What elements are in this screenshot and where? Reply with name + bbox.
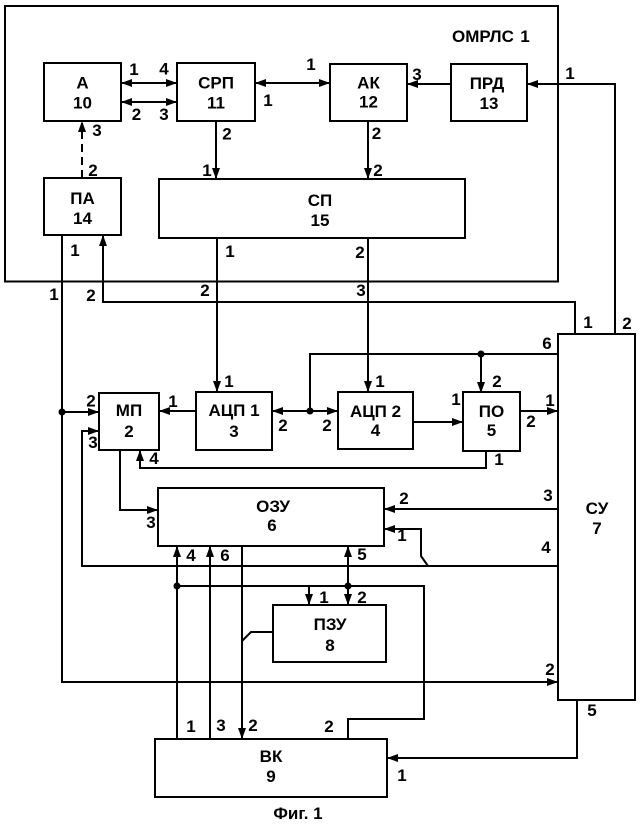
svg-text:МП: МП (116, 401, 142, 420)
svg-text:2: 2 (200, 281, 209, 300)
svg-text:2: 2 (132, 105, 141, 124)
svg-text:6: 6 (220, 546, 229, 565)
svg-text:2: 2 (545, 660, 554, 679)
svg-text:1: 1 (49, 285, 58, 304)
svg-text:1: 1 (583, 313, 592, 332)
svg-text:2: 2 (492, 372, 501, 391)
svg-text:1: 1 (375, 372, 384, 391)
svg-text:1: 1 (494, 450, 503, 469)
svg-text:АК: АК (357, 74, 380, 93)
svg-text:2: 2 (324, 717, 333, 736)
svg-text:ПЗУ: ПЗУ (314, 615, 347, 634)
svg-text:ОЗУ: ОЗУ (256, 497, 290, 516)
svg-text:4: 4 (371, 421, 381, 440)
svg-text:4: 4 (149, 449, 159, 468)
svg-text:2: 2 (526, 412, 535, 431)
svg-text:1: 1 (306, 55, 315, 74)
svg-text:3: 3 (146, 513, 155, 532)
svg-text:1: 1 (565, 64, 574, 83)
svg-text:АЦП 1: АЦП 1 (208, 401, 259, 420)
svg-text:3: 3 (88, 433, 97, 452)
svg-text:12: 12 (359, 93, 378, 112)
svg-text:1: 1 (545, 391, 554, 410)
svg-text:1: 1 (168, 392, 177, 411)
svg-text:2: 2 (373, 161, 382, 180)
svg-text:5: 5 (487, 421, 496, 440)
svg-text:4: 4 (159, 60, 169, 79)
svg-text:2: 2 (622, 314, 631, 333)
svg-text:5: 5 (357, 545, 366, 564)
svg-text:1: 1 (129, 60, 138, 79)
svg-text:3: 3 (92, 121, 101, 140)
svg-text:2: 2 (355, 243, 364, 262)
svg-text:1: 1 (397, 766, 406, 785)
svg-text:2: 2 (222, 125, 231, 144)
svg-text:1: 1 (224, 372, 233, 391)
svg-text:7: 7 (592, 519, 601, 538)
svg-text:13: 13 (480, 94, 499, 113)
svg-text:9: 9 (266, 767, 275, 786)
svg-text:1: 1 (397, 526, 406, 545)
svg-text:СП: СП (308, 191, 333, 210)
svg-text:3: 3 (159, 105, 168, 124)
svg-text:2: 2 (399, 489, 408, 508)
svg-text:1: 1 (520, 27, 529, 46)
svg-text:2: 2 (322, 416, 331, 435)
svg-text:15: 15 (311, 211, 330, 230)
svg-text:3: 3 (229, 422, 238, 441)
svg-text:СУ: СУ (586, 499, 609, 518)
svg-text:ПО: ПО (479, 402, 504, 421)
svg-text:6: 6 (542, 334, 551, 353)
svg-text:1: 1 (202, 161, 211, 180)
svg-text:3: 3 (412, 65, 421, 84)
svg-text:3: 3 (356, 281, 365, 300)
svg-text:3: 3 (216, 716, 225, 735)
svg-text:2: 2 (357, 588, 366, 607)
svg-text:5: 5 (587, 701, 596, 720)
svg-text:6: 6 (267, 516, 276, 535)
svg-text:2: 2 (372, 124, 381, 143)
svg-text:1: 1 (225, 242, 234, 261)
svg-text:2: 2 (278, 416, 287, 435)
svg-text:2: 2 (124, 422, 133, 441)
svg-text:1: 1 (451, 390, 460, 409)
svg-text:ПА: ПА (70, 189, 95, 208)
svg-text:2: 2 (86, 286, 95, 305)
svg-text:ПРД: ПРД (470, 74, 505, 93)
svg-text:АЦП 2: АЦП 2 (350, 402, 401, 421)
svg-text:14: 14 (73, 209, 92, 228)
svg-text:А: А (76, 74, 88, 93)
svg-text:Фиг. 1: Фиг. 1 (273, 804, 322, 823)
svg-text:1: 1 (263, 91, 272, 110)
svg-text:4: 4 (541, 538, 551, 557)
svg-text:10: 10 (73, 94, 92, 113)
svg-text:ОМРЛС: ОМРЛС (452, 27, 514, 46)
svg-text:3: 3 (543, 486, 552, 505)
svg-text:1: 1 (186, 717, 195, 736)
svg-text:2: 2 (88, 161, 97, 180)
svg-text:8: 8 (325, 636, 334, 655)
svg-text:СРП: СРП (198, 74, 234, 93)
svg-text:2: 2 (248, 716, 257, 735)
svg-text:11: 11 (207, 94, 225, 113)
svg-text:2: 2 (86, 392, 95, 411)
svg-text:ВК: ВК (260, 747, 283, 766)
svg-text:1: 1 (319, 588, 328, 607)
svg-text:4: 4 (186, 546, 196, 565)
svg-text:1: 1 (70, 241, 79, 260)
